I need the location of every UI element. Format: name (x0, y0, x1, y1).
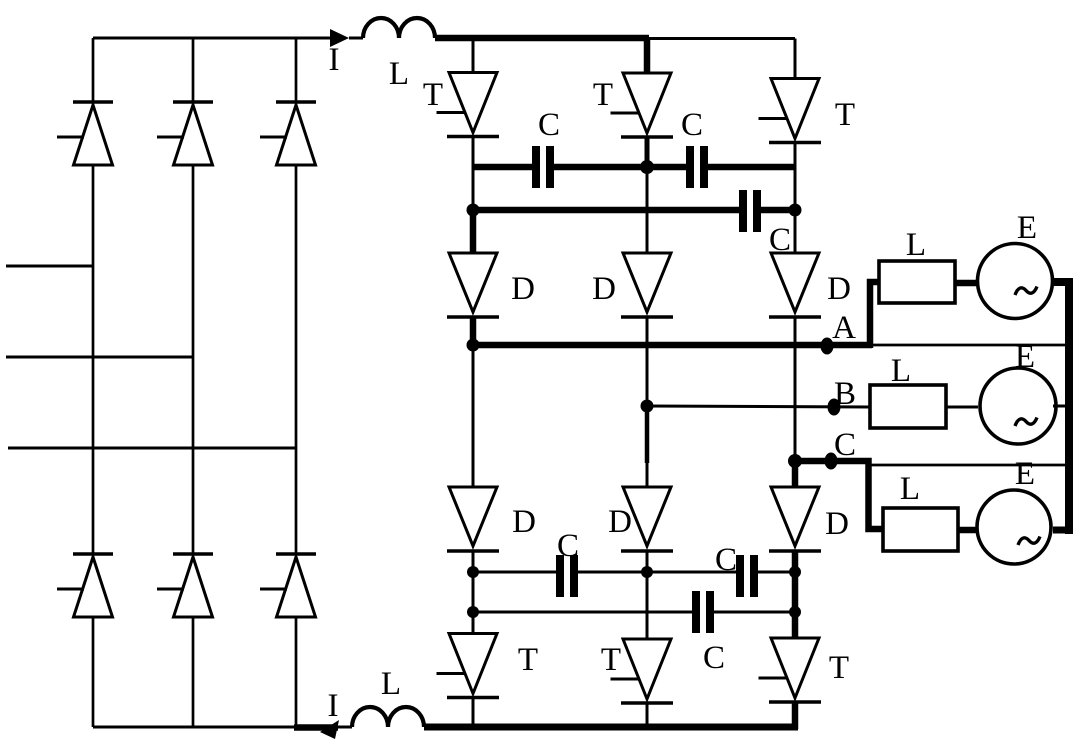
svg-text:L: L (900, 471, 920, 507)
svg-text:C: C (538, 107, 560, 143)
svg-text:D: D (608, 504, 632, 540)
svg-text:C: C (769, 222, 791, 258)
svg-text:L: L (389, 56, 409, 92)
svg-text:C: C (681, 107, 703, 143)
svg-text:C: C (715, 542, 737, 578)
svg-text:C: C (557, 528, 579, 564)
svg-text:C: C (703, 640, 725, 676)
svg-text:D: D (825, 506, 849, 542)
svg-text:D: D (592, 271, 616, 307)
svg-text:E: E (1017, 210, 1037, 246)
svg-text:T: T (601, 642, 621, 678)
svg-text:T: T (593, 77, 613, 113)
svg-text:E: E (1015, 339, 1035, 375)
svg-text:T: T (835, 97, 855, 133)
svg-text:D: D (512, 504, 536, 540)
svg-text:I: I (328, 688, 339, 724)
svg-text:L: L (891, 353, 911, 389)
svg-text:T: T (829, 650, 849, 686)
svg-text:I: I (329, 42, 340, 78)
svg-text:T: T (518, 642, 538, 678)
svg-text:E: E (1015, 456, 1035, 492)
svg-text:T: T (423, 77, 443, 113)
svg-text:C: C (834, 427, 856, 463)
svg-text:D: D (827, 271, 851, 307)
svg-text:B: B (834, 376, 856, 412)
svg-text:L: L (381, 666, 401, 702)
svg-text:D: D (511, 271, 535, 307)
svg-text:L: L (906, 227, 926, 263)
svg-text:A: A (832, 310, 856, 346)
